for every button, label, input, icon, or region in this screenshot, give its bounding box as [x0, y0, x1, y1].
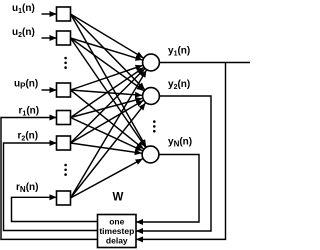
wire R2-YN [71, 143, 142, 153]
svg-text:y1(n): y1(n) [168, 46, 190, 58]
svg-text:y2(n): y2(n) [168, 79, 190, 91]
svg-text:r2(n): r2(n) [18, 131, 39, 143]
input unit uP (square) [57, 83, 71, 97]
wire delay-to-rN [12, 197, 98, 221]
wire U2-Y1 [71, 38, 143, 60]
input unit u2 (square) [57, 31, 71, 45]
feedback unit r1 (square) [57, 111, 71, 125]
feedback unit rN (square) [57, 191, 71, 205]
one timestep delay box [98, 215, 137, 248]
output neuron y1 (circle) [143, 54, 160, 71]
svg-text:r1(n): r1(n) [19, 106, 40, 118]
wire UP-Y2 [71, 90, 143, 95]
wire UP-YN [71, 90, 144, 149]
wire U1-Y2 [71, 14, 145, 90]
wire U2-Y2 [71, 38, 144, 91]
wire R1-YN [71, 118, 143, 151]
wire RN-YN [71, 159, 143, 198]
wire U1-Y1 [71, 14, 144, 58]
wire y1 output to right edge [159, 62, 250, 64]
wire R2-Y2 [71, 101, 144, 144]
ellipsis dots between y2 and yN [153, 120, 156, 123]
feedback unit r2 (square) [57, 136, 71, 150]
wire R2-Y1 [71, 69, 145, 143]
wire RN-Y2 [71, 103, 146, 198]
svg-text:u1(n): u1(n) [12, 3, 35, 15]
svg-text:yN(n): yN(n) [168, 137, 192, 149]
svg-text:delay: delay [106, 235, 128, 245]
wire U1-YN [71, 14, 147, 147]
svg-text:W: W [113, 192, 124, 204]
output neuron y2 (circle) [143, 88, 160, 105]
input arrow u1 [42, 13, 57, 15]
wire R1-Y2 [71, 98, 143, 117]
wire delay-to-r2 [4, 143, 98, 231]
wire UP-Y1 [71, 65, 143, 90]
svg-text:u2(n): u2(n) [12, 27, 35, 39]
svg-text:uP(n): uP(n) [14, 79, 38, 91]
ellipsis dots between r2 and rN [64, 164, 67, 167]
wire U2-YN [71, 38, 146, 147]
ellipsis dots between u2 and uP [64, 57, 67, 60]
wire R1-Y1 [71, 68, 144, 118]
wire RN-Y1 [71, 70, 147, 198]
input arrow u2 [42, 37, 57, 39]
input arrow up [42, 89, 57, 91]
wire y2-to-delay [136, 96, 211, 231]
wire yN-to-delay [136, 155, 199, 223]
wire delay-to-r1 [1, 118, 98, 240]
wire y1-to-delay [136, 63, 226, 240]
output neuron yN (circle) [142, 146, 159, 163]
svg-text:rN(n): rN(n) [16, 182, 38, 194]
input unit u1 (square) [57, 7, 71, 21]
